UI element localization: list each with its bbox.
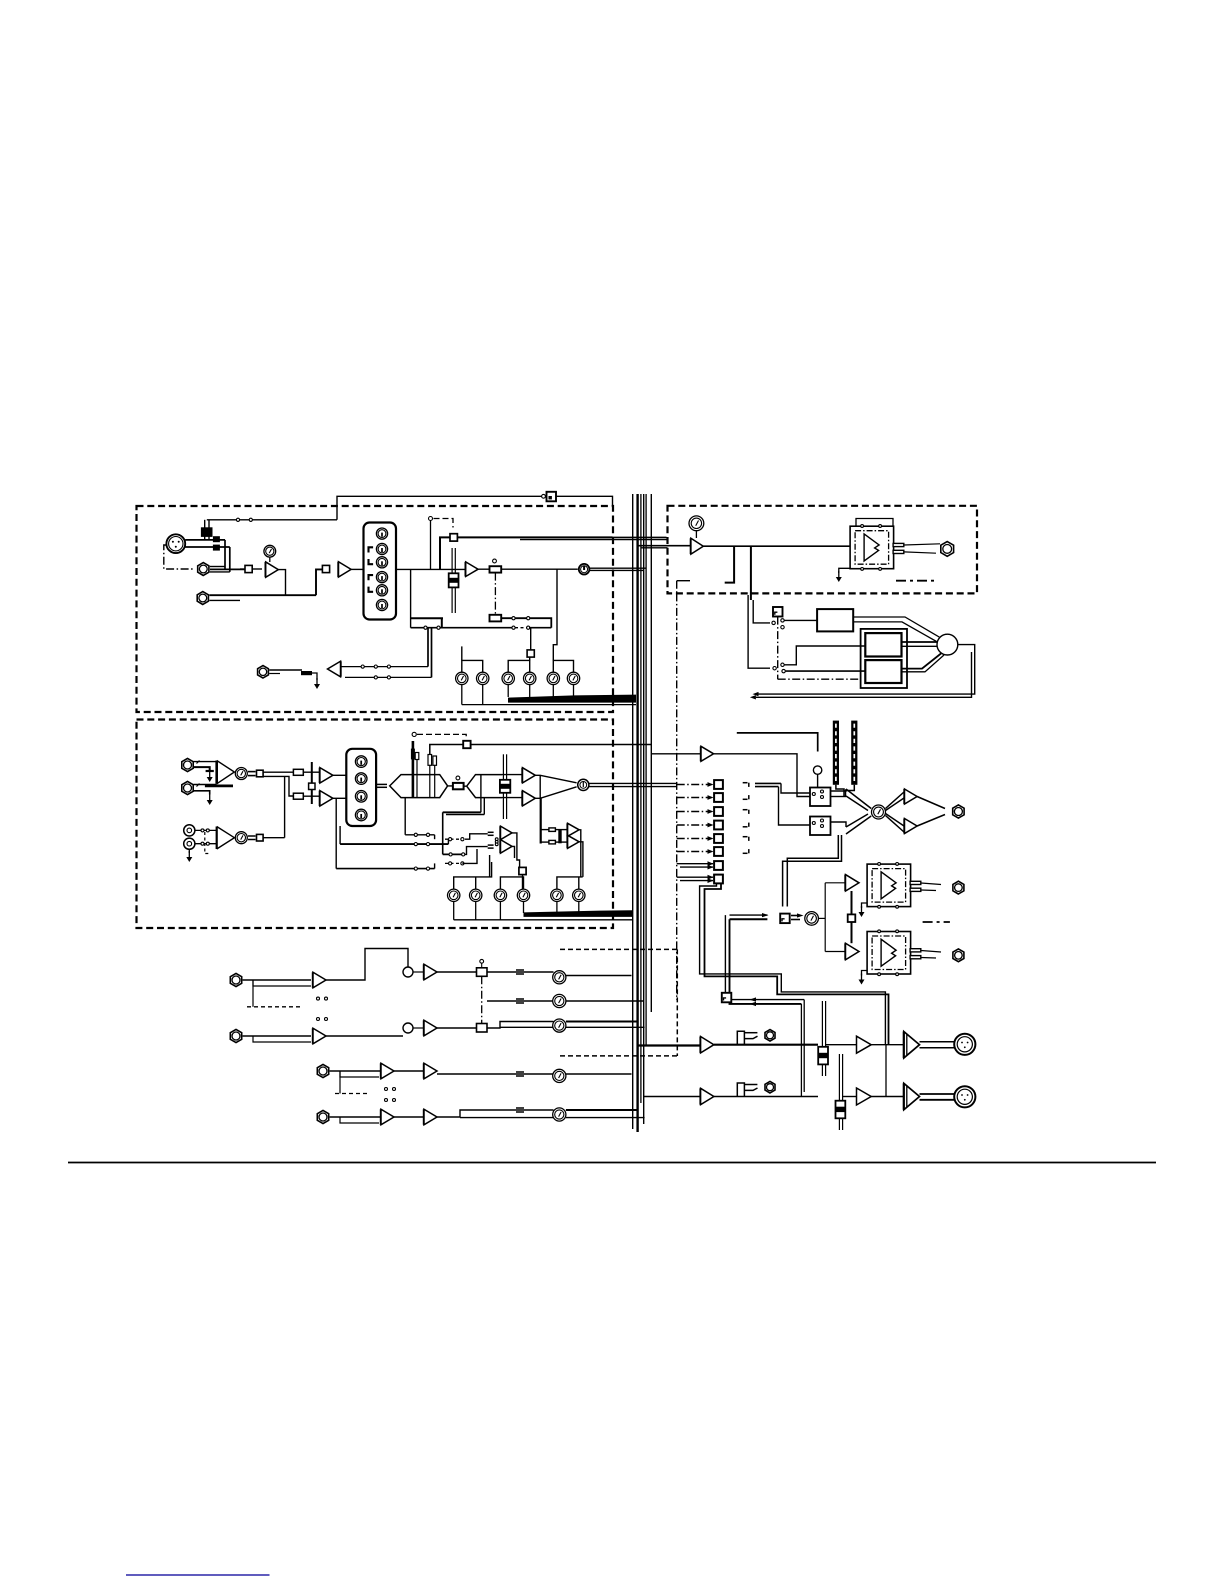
connector cap R [293,793,303,799]
wire bus tap row 6 [677,851,708,853]
wire phones main line [703,545,850,547]
wire amp to jack [904,544,940,545]
wire phone split [818,917,825,919]
pot aux3 ch1 [502,672,514,684]
bracket EQ band 1 [369,547,374,552]
wire stub row 5 [743,836,748,838]
switch phones source [780,914,790,924]
capacitor C5 stereo [429,765,431,797]
wire jack R tip [194,784,217,786]
connector marks ar1 [516,969,524,971]
op-amp U28 main L post [857,1036,872,1053]
wire aux bus thin [462,704,636,706]
amplifier block phones R [867,930,921,976]
switch insert ch1 [322,565,329,572]
pot EQ knob 2 [376,543,387,554]
wire main L from bus [638,1044,701,1046]
wire tape contacts [195,829,216,831]
bowtie to B node [535,775,576,798]
switch 2track contacts lower [773,667,776,670]
op-amp U16 ctrl R [905,819,918,834]
op-amp U23 ar2 L [381,1063,394,1079]
bracket EQ band 3 [369,575,374,580]
wire to fader [502,774,523,776]
connector stereo input jack R [182,781,193,794]
balanced input stage triangle [217,761,235,784]
wire phones jacks [921,883,941,885]
switch stereo input [257,770,264,777]
switch S1 insert [547,492,557,502]
wire dash-dot marker [896,580,938,582]
wire sum to stereo switch [437,971,477,973]
op-amp U25 ar2 buf L [424,1063,437,1079]
meter L bar [833,721,839,785]
hyperlink underline bottom [126,1574,270,1576]
connector cap L [293,769,303,775]
wire B out pair [589,782,677,784]
EQ block ch1 [364,523,397,620]
switch ar stereo bottom [477,1024,488,1033]
switch ar stereo top [477,968,488,977]
connector main insert R [737,1083,744,1097]
wire phones branch 1 [725,546,734,582]
wire bus tap row 8 [677,876,713,878]
switch tape input [257,834,264,841]
op-amp U19 ar1 L [313,972,326,988]
switch 2track icon [773,607,783,617]
wire dash-dot switch link [777,617,779,680]
op-amp U22 ar sum R [424,1020,437,1036]
wire deck A to reel [902,641,938,643]
pot aux return 2 L [553,1069,566,1082]
pot pan ch1 [490,566,502,572]
switch rec out icon [722,993,732,1003]
wire pan out L [501,618,551,628]
wire bus tap row 2 [677,797,708,799]
summing hexagon stereo [390,775,448,798]
wire jack L tip [194,761,217,763]
wire ar2 jacks [330,1070,381,1072]
wire EQ low branch [410,569,412,627]
wire ar2 to knobs [437,1073,554,1075]
wire jack L ring to ground [194,767,210,770]
wire post fader [478,568,578,570]
op-amp U15 ctrl L [905,789,918,804]
amplifier block phones L [867,863,921,909]
wire to XLR R [920,1093,955,1095]
connector phones out jack L [953,881,964,894]
pot EQ knob 5 [376,585,387,596]
wire jack2 pair [209,594,316,596]
wire ar knobs to bus [566,975,632,977]
expander hexagon right [467,775,502,798]
EQ block stereo channel [346,749,376,826]
wire main L line [714,1044,818,1046]
connector line input jack 2 [197,592,208,605]
arrow reel loop ends [753,692,759,696]
wire buffer out down [714,754,797,789]
bus st aux heavy bar [524,910,633,917]
pot aux6 ch1 [567,672,579,684]
wire channel insert send line top [337,496,613,520]
balanced input stage tape triangle [217,827,235,850]
wire ch1 mute to bus crossing [613,536,667,538]
pot aux6 stereo [573,889,585,901]
switch mute stereo [463,741,470,748]
pot aux1 ch1 [456,672,468,684]
op-amp U18 phones R [846,943,860,960]
pot gain [264,545,276,557]
wire B pair into boxes [781,783,810,793]
wire fx to riser [512,833,520,868]
wire stub row 6 [743,852,748,854]
wire bus to phones line [638,545,691,547]
wire jack R ring to ground [194,791,210,795]
wire aux switch row top [341,666,429,668]
connector aux send jack [258,666,269,678]
ground phones R [862,971,868,976]
wire ar1 to sum [326,949,408,981]
wire mute stereo line [430,745,463,755]
pot aux1 stereo [448,889,460,901]
connector line input jack ch1 [198,563,209,576]
op-amp U3 post fader [466,562,478,577]
ground aux [314,678,320,689]
fader ch1 [451,548,453,613]
wire phantom power feed [207,519,337,521]
wire aux send [269,669,302,671]
wire to EQ [351,568,363,570]
op-amp U21 ar sum L [424,964,437,980]
bowtie monitor [846,789,871,834]
pot EQ knob 6 [376,599,387,610]
wire dash-dot mute link [434,519,454,528]
wire phones feed pair down [787,835,838,907]
pot stereo EQ knob 1 [355,756,367,768]
wire pan feed right [540,798,542,844]
capacitor C4 stereo [412,741,415,798]
separator horizontal rule [68,1162,1156,1164]
switch ar1 contacts [317,997,320,1000]
op-amp U27 main L buffer [701,1037,714,1053]
wire dash-dot marker 2 [923,921,950,923]
op-amp U4 aux send driver [328,661,341,677]
op-amp U17 phones L [846,875,860,892]
connector RCA tape in R [184,838,195,849]
connector marks phones [791,915,800,917]
wire dash-dot pan [494,573,496,615]
wire aux risers [427,628,429,667]
wire to ctrl jack [917,797,945,827]
wire st aux outputs [453,902,455,920]
wire amp low row [335,798,337,868]
switch mute ch1 [450,534,457,541]
wire fx riser thick [443,811,481,813]
connector XLR main out R [954,1086,975,1107]
wire bus tap row 1 [677,784,708,786]
wire st aux bus thin [454,919,633,921]
wire aux knob outputs to bus [461,685,463,705]
pot aux4 ch1 [524,672,536,684]
connector aux return jack 1L [230,973,241,986]
wire bus tap row 7 [677,863,713,865]
amplifier block headphone [850,525,904,571]
switch bus assign 3 [714,807,723,816]
pot balance [453,783,464,789]
pot headphone level [805,912,819,926]
node contact on insert line [542,494,546,498]
wire reel loop [759,645,975,695]
capacitor C1 phantom blocking [201,527,213,537]
wire CD tape riser [284,776,286,837]
stereo channel strip dashed box [137,720,614,929]
switch bus assign 1 [714,780,723,789]
wire ar1 R [243,1035,311,1037]
switch box source select A [810,788,831,807]
wire preamp out [278,570,285,596]
connector main insert L [737,1031,744,1045]
wire fader taps [480,775,482,813]
op-amp U24 ar2 R [381,1109,394,1125]
wire mic vertical pair [224,540,226,570]
op-amp U2 line amp [339,562,352,577]
pot stereo EQ knob 3 [355,791,367,803]
node pan control [493,559,497,563]
frame tape deck [861,629,907,688]
wire buffer loop top [737,733,818,752]
pot aux return mid [553,994,566,1007]
connector fx marks [488,831,494,833]
wire level out [248,771,256,773]
wire main R line [714,1096,818,1098]
meter R bar [851,721,857,785]
op-amp U30 main R post [857,1088,872,1105]
wire st aux feeds [454,862,492,889]
pot stereo level [235,768,247,780]
wire channel out pair to bus [590,567,647,569]
wire stub row 1 [743,782,748,784]
op-amp U8 stereo post R [523,791,536,806]
switch fx post [519,867,526,874]
connector aux return jack 2L [317,1064,328,1077]
connector marks ar2 [516,1071,524,1073]
switch bus assign 7 [714,861,723,870]
wire EQ out pair marks [376,783,387,785]
connector phones out jack R [953,949,964,962]
op-amp U13 phones amp [691,538,703,554]
pot aux2 ch1 [477,672,489,684]
op-amp U14 bus buffer [701,746,714,761]
op-amp U12 aux st R [568,835,580,848]
wire into amps [303,771,320,773]
fader stereo [502,754,504,819]
block tape deck B [865,660,901,683]
fader main L [821,1001,823,1076]
ground tape [188,849,190,853]
amplifier main L out [904,1032,920,1059]
wire block out pair [853,617,940,638]
wire dash-dot corner [676,581,678,594]
pot monitor level [872,805,886,819]
wire sw to block [784,619,817,621]
wire aux knob feeds [462,660,483,672]
wire line-in pair [210,566,225,568]
node mute control stereo [412,732,416,736]
capacitor C3 [213,545,220,551]
connector XLR main out L [954,1034,975,1055]
bus main mix vertical lines [632,494,634,1129]
node route circle 1 [579,564,590,575]
pot EQ knob 1 [376,528,387,539]
connector ctrl room jack [953,805,964,818]
wire aux switch row bottom [345,676,432,678]
control room dashed box [668,506,978,594]
node pan black connector [558,830,561,844]
wire fx dash row A [445,838,465,840]
pot phones level [689,516,704,531]
node sum circle 1 [403,967,413,977]
wire meter stubs [836,785,844,797]
switch bus assign 2 [714,793,723,802]
wire amps to EQ [333,774,346,776]
wire fx dash row B [445,862,462,864]
block tape deck A [865,633,901,656]
node stereo link bar [311,762,313,804]
wire to XLR L [920,1041,955,1043]
wire bus tap row 5 [677,838,708,840]
wire ar1 L [243,979,311,981]
bus aux send heavy bar [508,695,636,703]
pot aux4 stereo [517,889,529,901]
wire amp feedback [856,519,893,526]
wire eq low row [339,826,341,844]
pot stereo EQ knob 4 [355,809,367,821]
wire fx row top [404,798,406,835]
pot aux return 1 R [553,1019,566,1032]
wire monitor diverge [886,792,905,832]
switch bus assign 5 [714,834,723,843]
node mute control [429,517,433,521]
wire fx row 3 [443,853,464,855]
pot EQ knob 3 [376,557,387,568]
op-amp U20 ar1 R [313,1028,326,1044]
wire dash-dot ar link [481,976,483,1023]
pot aux2 stereo [470,889,482,901]
pot pan lower [490,615,502,622]
op-amp U5 stereo L [320,768,333,783]
switch aux post [527,650,534,657]
wire tape level out [248,835,256,837]
switch low cut [245,565,252,572]
wire dashed ctrl rect [560,948,677,950]
pot aux5 stereo [551,889,563,901]
node solo circle [813,766,821,774]
wire deck B to reel [902,654,942,669]
ground phones L [862,903,868,908]
wire ar2 to bus [566,1073,632,1075]
wire stub row 2 [743,798,748,800]
pot aux5 ch1 [547,672,559,684]
wire tape to riser [263,837,285,839]
bracket EQ band 4 [369,587,374,592]
wire EQ out [396,568,466,570]
wire dash-dot mic ground loop [164,545,194,569]
wire mic pair [185,539,225,541]
connector pan caps [549,828,556,832]
op-amp U29 main R buffer [701,1088,714,1104]
op-amp U9 fx send L [501,826,513,840]
wire ar1 dashed link [247,1006,300,1008]
connector aux return jack 2R [317,1110,328,1123]
wire st aux outs [579,830,581,877]
wire balance bowtie [448,785,467,787]
switch stereo mode [309,783,315,789]
wire tap pair to phones routing [700,883,886,1044]
op-amp U11 aux st L [568,823,580,836]
wire phones sw pair in [730,914,768,916]
wire lower contact to deck B [786,670,866,672]
wire dash-dot mute link stereo [417,734,466,738]
op-amp U26 ar2 buf R [424,1109,437,1125]
block tape output [817,609,853,631]
op-amp U7 stereo post L [523,768,536,783]
switch ar2 contacts [385,1088,388,1091]
wire bus tap row 4 [677,824,708,826]
wire main R from bus [644,1096,701,1098]
capacitor C2 [213,536,220,542]
wire pan out vertical [553,569,557,660]
wire sw lower to deck [784,646,865,665]
connector aux return jack 1R [230,1029,241,1042]
bracket EQ band 2 [369,559,374,564]
wire dash-dot bus source vertical [676,593,678,1000]
wire mute line [440,537,613,569]
wire crossing pair verticals [803,1000,805,1092]
wire stub row 3 [743,809,748,811]
pot EQ knob 4 [376,572,387,583]
circle tape reel [937,634,958,655]
wire 2track feeds [748,595,770,668]
resistor on aux line [301,671,312,675]
connector phones jack [941,542,954,557]
switch bus assign 4 [714,821,723,830]
node sum circle 2 [403,1023,413,1033]
switch 2track contacts upper [772,621,775,624]
wire phones branch 2 [750,546,752,600]
node route circle B [578,779,589,790]
switch bus assign 8 [714,875,723,884]
op-amp U6 stereo R [320,791,333,806]
pot aux return 2 R [553,1108,566,1121]
switch box source select B [810,817,831,836]
wire to buffer pair [263,771,293,773]
mono channel strip dashed box [137,506,614,712]
op-amp U1 mic preamp [266,562,279,577]
op-amp U10 fx send R [501,840,513,854]
node fx dots [495,838,498,841]
pot aux return 1 L [553,971,566,984]
switch bus assign 6 [714,847,723,856]
ground phones [839,568,850,573]
connector XLR mic input [166,534,185,553]
wire dashed tape link [205,832,211,854]
connector RCA tape in L [184,825,195,836]
wire ar to knobs [487,971,554,973]
wire bus tap row 3 [677,811,708,813]
pot aux3 stereo [494,889,506,901]
connector stereo input jack L [182,758,193,771]
amplifier main R out [904,1083,920,1110]
